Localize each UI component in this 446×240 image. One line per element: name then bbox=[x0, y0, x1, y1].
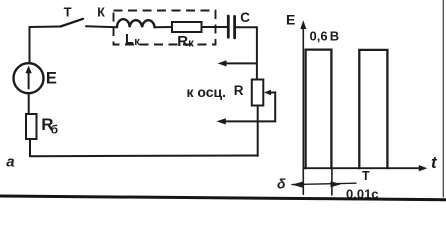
svg-text:T: T bbox=[64, 5, 72, 20]
svg-text:К: К bbox=[97, 6, 105, 20]
svg-text:t: t bbox=[431, 153, 438, 172]
svg-text:б: б bbox=[51, 123, 58, 137]
svg-text:0,6В: 0,6В bbox=[310, 28, 340, 43]
svg-text:к: к bbox=[188, 38, 194, 50]
svg-text:C: C bbox=[240, 10, 250, 25]
svg-text:δ: δ bbox=[277, 176, 286, 192]
svg-text:к осц.: к осц. bbox=[187, 84, 227, 100]
svg-text:R: R bbox=[234, 83, 244, 98]
svg-text:T: T bbox=[362, 169, 370, 183]
svg-text:E: E bbox=[286, 12, 295, 28]
svg-text:R: R bbox=[177, 33, 188, 50]
svg-text:к: к bbox=[134, 36, 140, 48]
svg-text:E: E bbox=[46, 70, 57, 88]
svg-text:L: L bbox=[125, 31, 134, 47]
svg-text:а: а bbox=[6, 154, 14, 171]
